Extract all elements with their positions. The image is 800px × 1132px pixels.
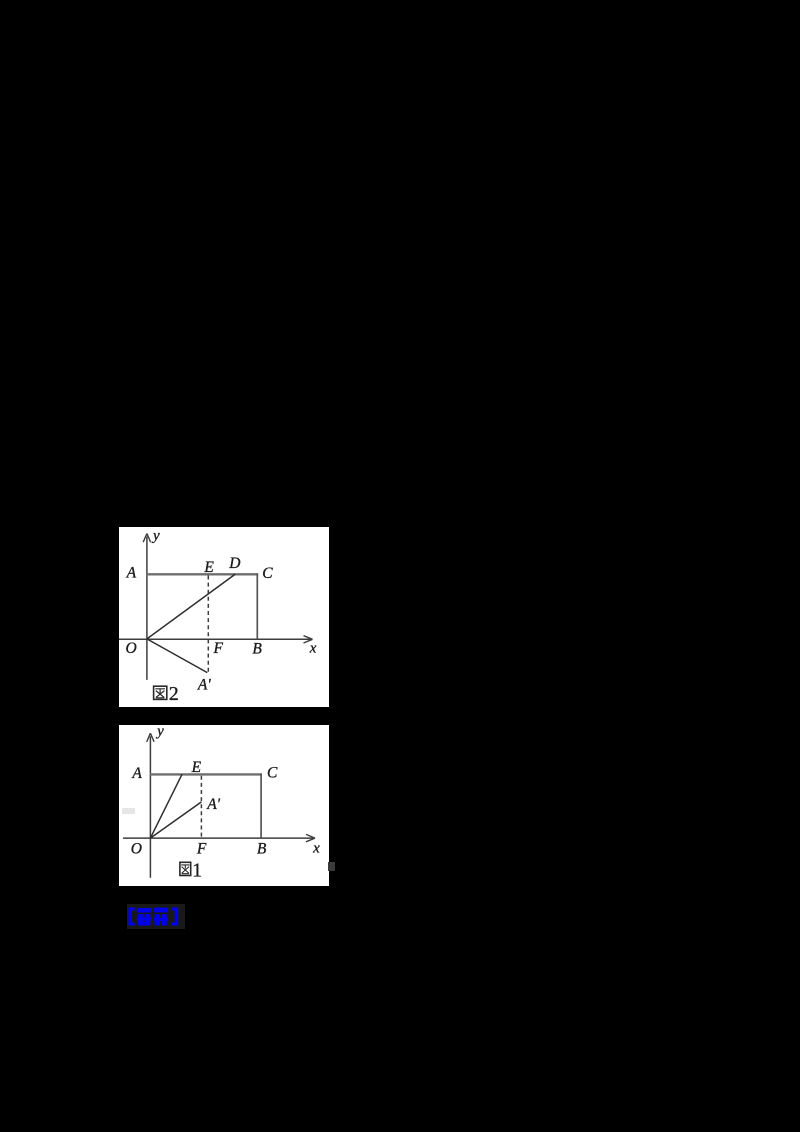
caption glyph tu (figure) (180, 862, 191, 875)
segment OE (150, 774, 182, 838)
svg-text:x: x (309, 641, 317, 657)
character 2 (154, 907, 168, 925)
dashed line EF (200, 776, 202, 838)
panel figure 2 (119, 527, 329, 707)
svg-text:D: D (228, 555, 240, 572)
faint artifact smudge (122, 808, 135, 814)
rectangle top edge AC (150, 773, 262, 775)
rectangle right edge CB (256, 574, 258, 639)
svg-text:2: 2 (169, 683, 179, 705)
svg-text:E: E (203, 559, 214, 576)
svg-text:C: C (267, 764, 278, 781)
caption glyph tu (figure) (154, 686, 167, 699)
segment OA' (150, 802, 201, 838)
svg-text:A: A (131, 765, 142, 782)
svg-text:O: O (125, 640, 136, 657)
svg-text:F: F (196, 841, 207, 858)
character 1 (138, 908, 152, 926)
segment OA' (147, 639, 207, 673)
blue annotation block (127, 904, 185, 929)
dashed line EA' through F (207, 576, 209, 674)
svg-text:O: O (131, 841, 142, 858)
y-axis (143, 534, 150, 680)
svg-text:y: y (151, 528, 160, 544)
panel figure 1 (119, 725, 329, 886)
segment OD (147, 574, 235, 639)
svg-text:F: F (212, 640, 223, 657)
svg-text:x: x (312, 840, 320, 856)
svg-text:B: B (252, 641, 262, 658)
svg-text:1: 1 (192, 859, 202, 881)
svg-text:A': A' (206, 796, 220, 813)
gray notch right of panel 1 bottom (328, 862, 335, 871)
svg-text:B: B (257, 841, 267, 858)
svg-text:A': A' (197, 676, 211, 693)
rectangle top edge AC (146, 573, 258, 575)
closing bracket (172, 907, 179, 925)
svg-text:E: E (191, 759, 202, 776)
svg-text:A: A (126, 565, 137, 582)
svg-text:y: y (155, 725, 164, 740)
rectangle right edge CB (260, 774, 262, 839)
y-axis (147, 733, 154, 878)
x-axis (123, 834, 315, 841)
svg-text:C: C (262, 565, 273, 582)
opening bracket (129, 907, 136, 925)
x-axis (119, 636, 313, 643)
